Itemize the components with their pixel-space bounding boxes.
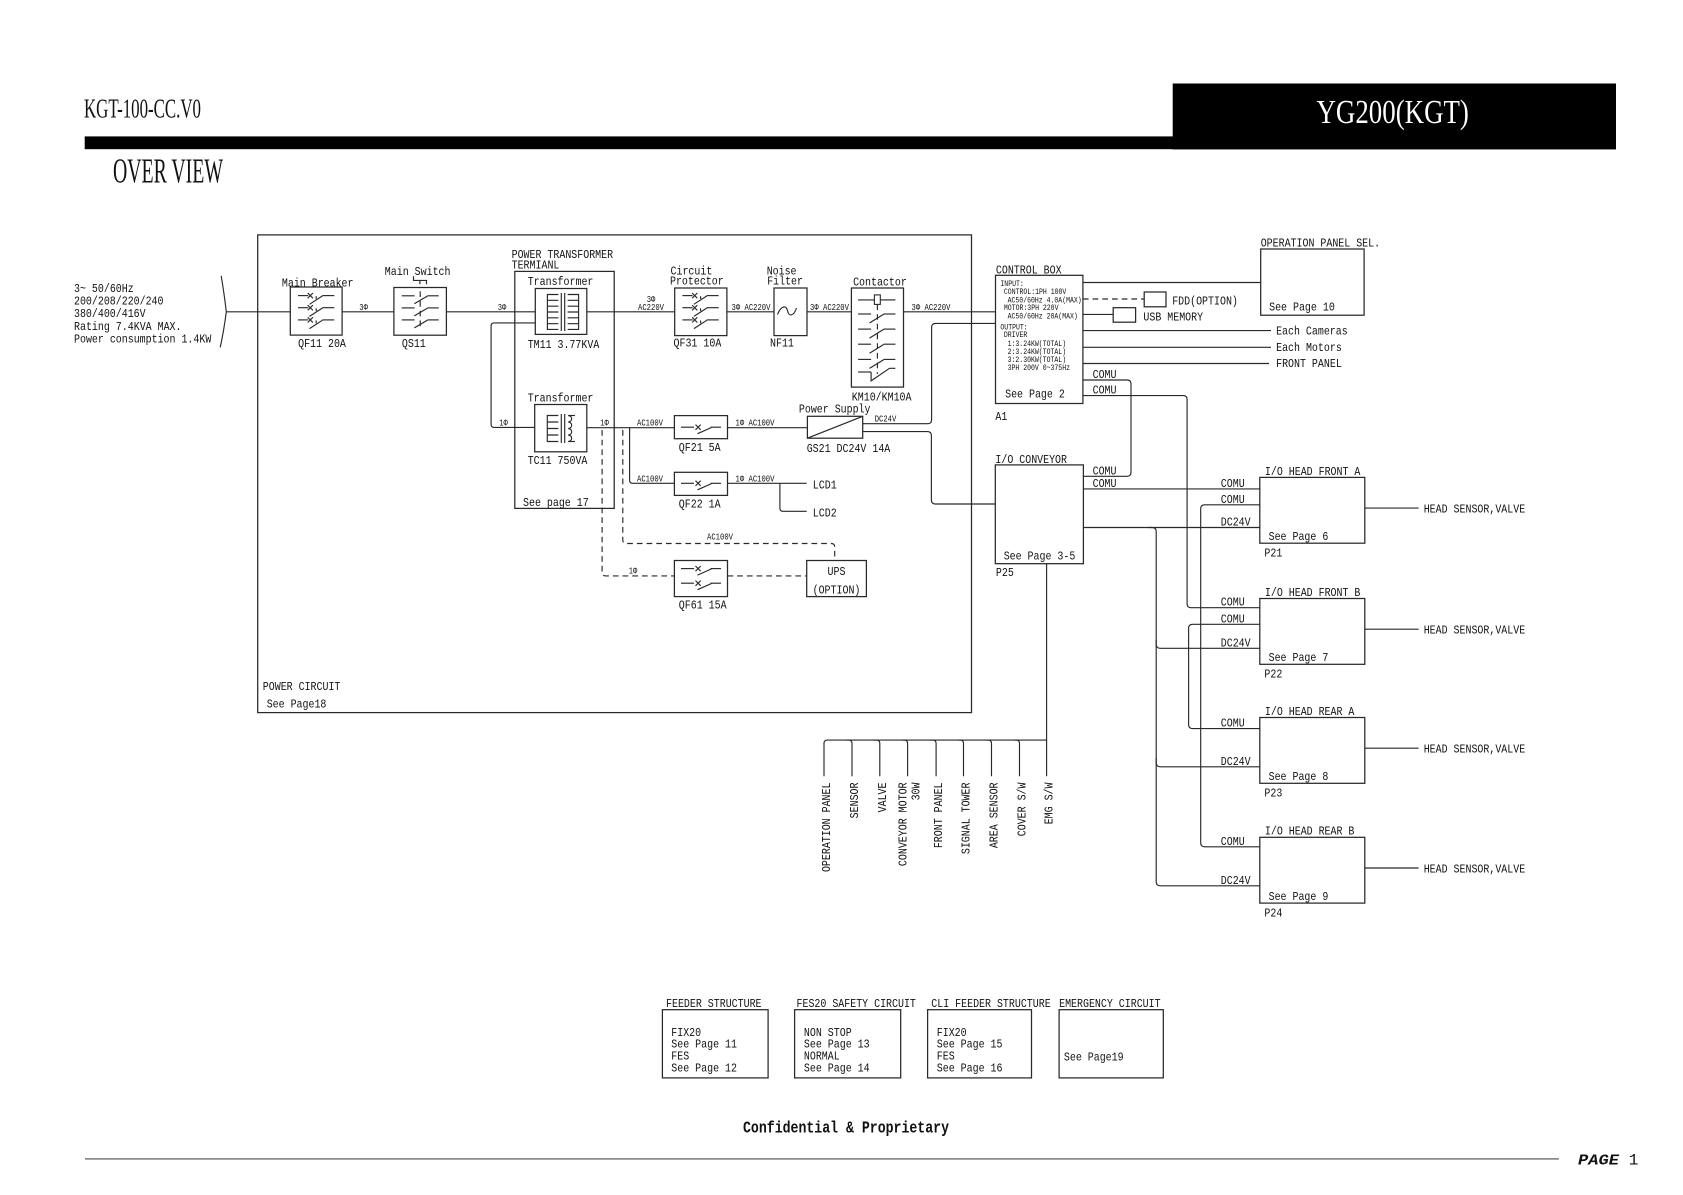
svg-text:I/O CONVEYOR: I/O CONVEYOR	[995, 453, 1067, 467]
svg-text:COMU: COMU	[1221, 596, 1245, 610]
svg-text:1Φ: 1Φ	[600, 418, 609, 428]
svg-text:I/O HEAD FRONT B: I/O HEAD FRONT B	[1265, 586, 1361, 600]
svg-text:I/O HEAD FRONT A: I/O HEAD FRONT A	[1265, 465, 1361, 479]
svg-text:AC50/60Hz 20A(MAX): AC50/60Hz 20A(MAX)	[1008, 312, 1078, 321]
svg-text:VALVE: VALVE	[876, 783, 890, 813]
svg-text:USB MEMORY: USB MEMORY	[1143, 310, 1203, 324]
svg-text:OVER VIEW: OVER VIEW	[113, 151, 223, 190]
svg-text:P25: P25	[996, 566, 1014, 580]
svg-text:P24: P24	[1264, 906, 1282, 920]
svg-text:1: 1	[1629, 1152, 1639, 1170]
svg-text:See Page19: See Page19	[1064, 1051, 1124, 1065]
svg-text:1Φ AC100V: 1Φ AC100V	[736, 474, 775, 484]
svg-text:AREA SENSOR: AREA SENSOR	[988, 782, 1002, 848]
svg-text:QF11 20A: QF11 20A	[298, 337, 346, 351]
svg-text:DC24V: DC24V	[875, 415, 897, 425]
svg-text:P22: P22	[1264, 668, 1282, 682]
svg-text:Main Breaker: Main Breaker	[282, 277, 354, 291]
svg-text:See Page18: See Page18	[267, 698, 327, 712]
svg-text:QF61 15A: QF61 15A	[679, 599, 727, 613]
svg-text:HEAD SENSOR,VALVE: HEAD SENSOR,VALVE	[1424, 503, 1526, 517]
svg-text:AC220V: AC220V	[638, 303, 664, 313]
svg-text:Transformer: Transformer	[528, 275, 594, 289]
svg-text:CONVEYOR MOTOR: CONVEYOR MOTOR	[897, 782, 911, 866]
svg-text:FES20 SAFETY CIRCUIT: FES20 SAFETY CIRCUIT	[797, 997, 916, 1011]
svg-text:KGT-100-CC.V0: KGT-100-CC.V0	[84, 94, 201, 124]
svg-text:See Page 2: See Page 2	[1005, 388, 1065, 402]
svg-text:SIGNAL TOWER: SIGNAL TOWER	[960, 783, 974, 855]
svg-text:COVER S/W: COVER S/W	[1016, 782, 1030, 836]
svg-text:Power Supply: Power Supply	[799, 403, 871, 417]
svg-text:EMERGENCY CIRCUIT: EMERGENCY CIRCUIT	[1059, 997, 1161, 1011]
svg-text:(OPTION): (OPTION)	[813, 584, 861, 598]
svg-text:DC24V: DC24V	[1221, 516, 1251, 530]
svg-text:EMG S/W: EMG S/W	[1043, 782, 1057, 824]
svg-text:QF22 1A: QF22 1A	[679, 498, 721, 512]
svg-text:CLI FEEDER STRUCTURE: CLI FEEDER STRUCTURE	[931, 997, 1050, 1011]
svg-text:Contactor: Contactor	[853, 276, 907, 290]
svg-text:AC100V: AC100V	[637, 419, 663, 429]
svg-text:NF11: NF11	[770, 337, 794, 351]
svg-text:OPERATION PANEL SEL.: OPERATION PANEL SEL.	[1261, 237, 1380, 251]
svg-text:YG200(KGT): YG200(KGT)	[1317, 94, 1469, 131]
svg-text:CONTROL BOX: CONTROL BOX	[996, 264, 1062, 278]
svg-text:3Φ: 3Φ	[359, 303, 368, 313]
svg-text:Transformer: Transformer	[528, 392, 594, 406]
svg-text:FRONT PANEL: FRONT PANEL	[1276, 357, 1342, 371]
svg-text:1Φ: 1Φ	[629, 566, 638, 576]
svg-text:P21: P21	[1264, 546, 1282, 560]
svg-text:3Φ AC220V: 3Φ AC220V	[912, 303, 951, 313]
svg-text:OPERATION PANEL: OPERATION PANEL	[820, 783, 834, 873]
svg-text:LCD2: LCD2	[813, 507, 837, 521]
svg-text:See Page 3-5: See Page 3-5	[1004, 550, 1076, 564]
svg-text:See Page 10: See Page 10	[1269, 301, 1335, 315]
svg-text:See Page 14: See Page 14	[804, 1061, 870, 1075]
svg-text:TC11 750VA: TC11 750VA	[528, 454, 588, 468]
svg-text:See page 17: See page 17	[523, 496, 589, 510]
svg-text:P23: P23	[1264, 787, 1282, 801]
svg-text:QF21 5A: QF21 5A	[679, 441, 721, 455]
svg-text:See Page 9: See Page 9	[1269, 890, 1329, 904]
svg-text:AC100V: AC100V	[707, 533, 733, 543]
svg-text:TM11 3.77KVA: TM11 3.77KVA	[528, 338, 600, 352]
svg-text:Filter: Filter	[767, 275, 803, 289]
svg-text:Protector: Protector	[670, 275, 724, 289]
svg-text:Main Switch: Main Switch	[385, 265, 451, 279]
svg-text:HEAD SENSOR,VALVE: HEAD SENSOR,VALVE	[1424, 624, 1526, 638]
svg-text:I/O HEAD REAR B: I/O HEAD REAR B	[1265, 825, 1355, 839]
svg-text:SENSOR: SENSOR	[848, 783, 862, 819]
svg-text:3Φ: 3Φ	[498, 303, 507, 313]
svg-text:Power consumption 1.4KW: Power consumption 1.4KW	[74, 332, 212, 346]
svg-text:GS21 DC24V 14A: GS21 DC24V 14A	[807, 442, 891, 456]
svg-text:1Φ: 1Φ	[499, 418, 508, 428]
svg-text:See Page 8: See Page 8	[1269, 770, 1329, 784]
svg-text:FRONT PANEL: FRONT PANEL	[932, 782, 946, 848]
svg-text:LCD1: LCD1	[813, 479, 837, 493]
svg-text:I/O HEAD REAR A: I/O HEAD REAR A	[1265, 705, 1355, 719]
svg-text:3Φ AC220V: 3Φ AC220V	[810, 303, 849, 313]
svg-text:QS11: QS11	[402, 337, 426, 351]
svg-text:QF31 10A: QF31 10A	[674, 337, 722, 351]
svg-text:PAGE: PAGE	[1578, 1152, 1620, 1169]
svg-text:A1: A1	[995, 410, 1007, 424]
svg-text:See Page 12: See Page 12	[671, 1061, 737, 1075]
svg-text:Each Cameras: Each Cameras	[1276, 324, 1348, 338]
svg-text:HEAD SENSOR,VALVE: HEAD SENSOR,VALVE	[1424, 743, 1526, 757]
svg-text:Confidential & Proprietary: Confidential & Proprietary	[743, 1120, 949, 1139]
svg-text:3PH 200V 0~375Hz: 3PH 200V 0~375Hz	[1008, 364, 1071, 373]
svg-text:AC100V: AC100V	[637, 474, 663, 484]
svg-text:30W: 30W	[910, 782, 924, 801]
svg-text:DRIVER: DRIVER	[1004, 331, 1028, 340]
svg-text:Each Motors: Each Motors	[1276, 341, 1342, 355]
svg-text:FEEDER STRUCTURE: FEEDER STRUCTURE	[666, 997, 762, 1011]
svg-text:See Page 16: See Page 16	[937, 1061, 1003, 1075]
svg-text:HEAD SENSOR,VALVE: HEAD SENSOR,VALVE	[1424, 863, 1526, 877]
svg-text:COMU: COMU	[1221, 477, 1245, 491]
svg-text:TERMIANL: TERMIANL	[512, 259, 560, 273]
svg-text:POWER CIRCUIT: POWER CIRCUIT	[263, 680, 341, 694]
svg-text:COMU: COMU	[1093, 368, 1117, 382]
svg-text:See Page 7: See Page 7	[1269, 651, 1329, 665]
svg-text:3Φ AC220V: 3Φ AC220V	[732, 303, 771, 313]
svg-text:UPS: UPS	[828, 565, 846, 579]
svg-text:See Page 6: See Page 6	[1269, 530, 1329, 544]
svg-text:1Φ AC100V: 1Φ AC100V	[736, 419, 775, 429]
svg-text:COMU: COMU	[1093, 384, 1117, 398]
svg-text:FDD(OPTION): FDD(OPTION)	[1172, 295, 1238, 309]
